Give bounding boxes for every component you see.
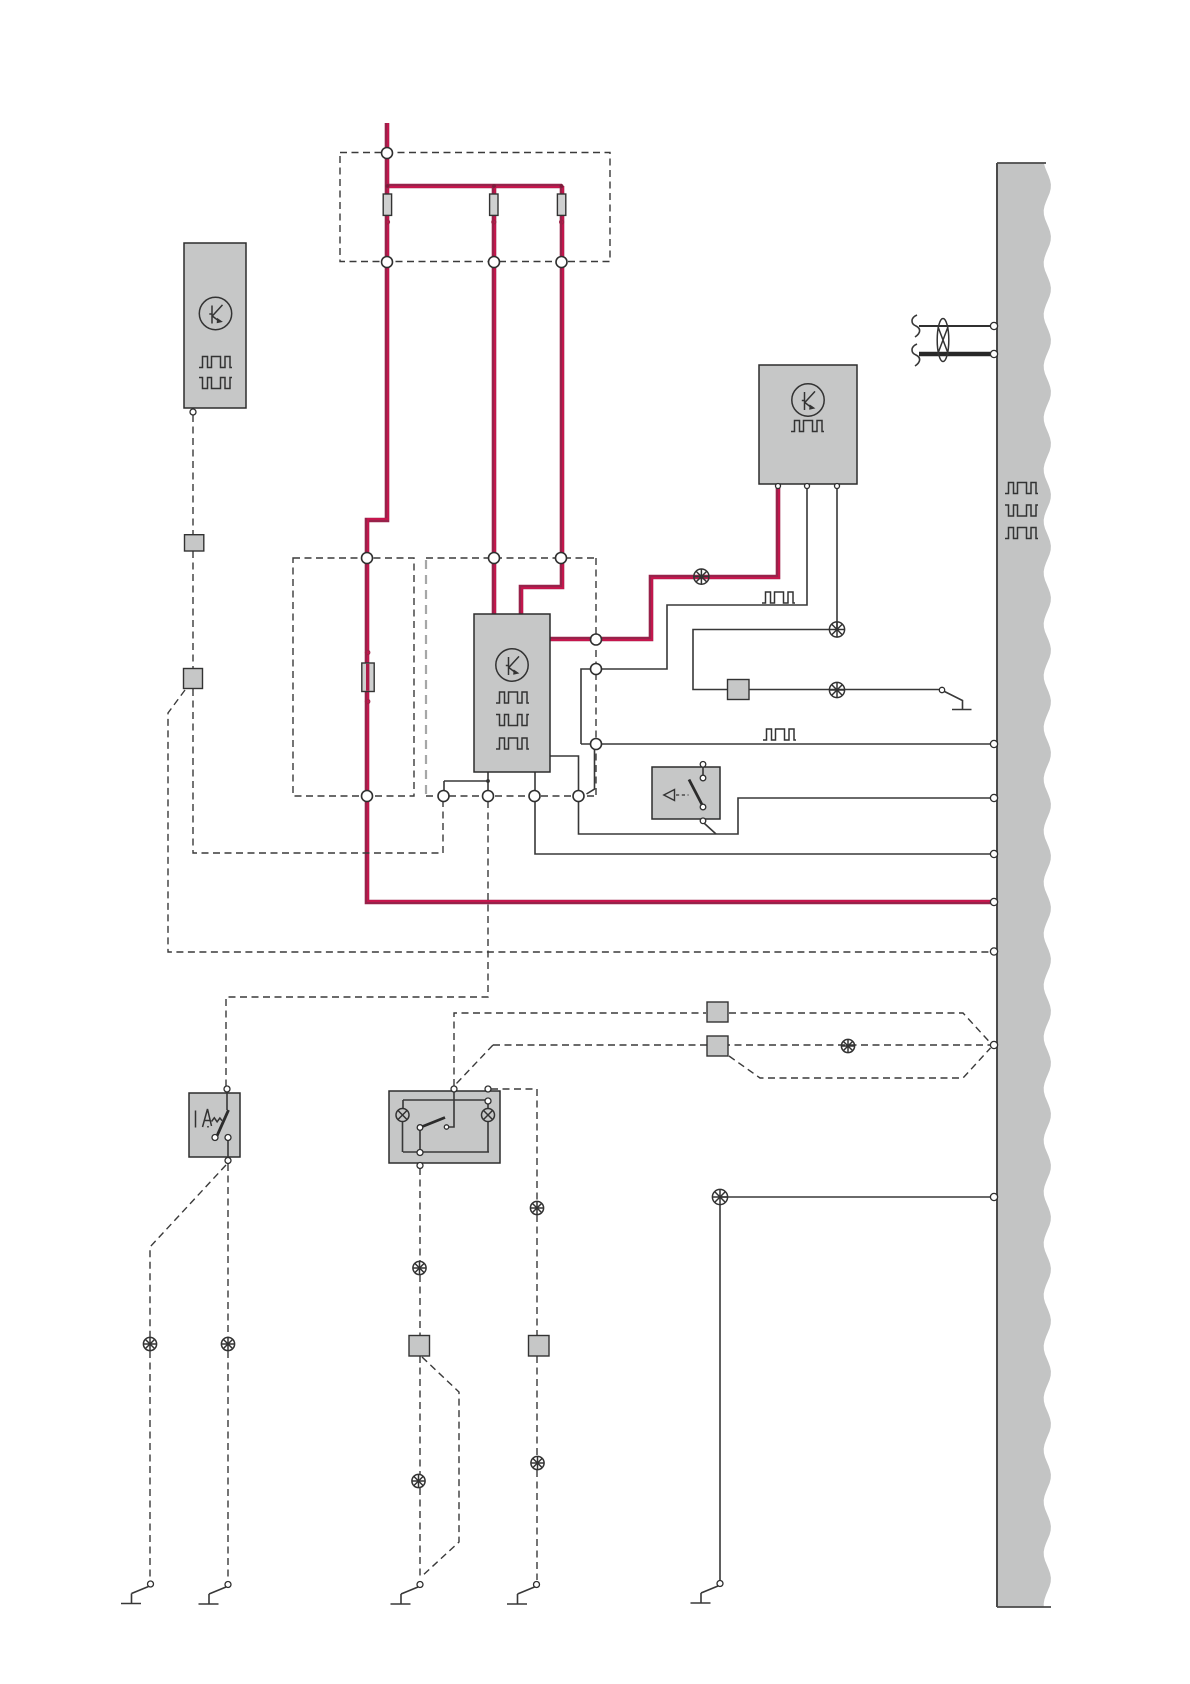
pin K1 top1 (451, 1086, 457, 1092)
bar node y1197 (990, 1193, 997, 1200)
twisted pair upper wire (919, 325, 991, 327)
splice relay chain upper (413, 1261, 426, 1274)
pin K1 top2 (485, 1086, 491, 1092)
dashed wire square1 to square2 (192, 551, 194, 668)
component box sensor U2 (759, 365, 857, 484)
pin U2-2 (805, 484, 810, 489)
twist symbol (937, 319, 949, 362)
pin switch right (939, 687, 944, 692)
pin S1 bottom (225, 1158, 231, 1164)
bar node y951 (990, 948, 997, 955)
bar node y744 (990, 740, 997, 747)
splice y1197 (712, 1189, 727, 1204)
pin U4 bottom outside (700, 818, 706, 824)
node fuse2 out (489, 257, 500, 268)
splice S1 diag chain (143, 1337, 156, 1350)
component box ECU U3 (474, 614, 550, 772)
ground G1 (121, 1581, 154, 1604)
component box direction switch U4 (652, 767, 720, 819)
dashed box connector C top edge (426, 557, 596, 559)
bar node red (990, 898, 997, 905)
node C-right 1 (591, 634, 602, 645)
component box relay K1 (389, 1091, 500, 1163)
component box left sensor U1 (184, 243, 246, 408)
splice relay chain lower (412, 1474, 425, 1487)
wire stub connector lower (587, 748, 595, 794)
dashed wire relay pin1 to square3 line (454, 1013, 706, 1086)
dashed box connector C bottom edge (426, 795, 596, 797)
node C-bottom 2 (483, 791, 494, 802)
bar node y798 (990, 794, 997, 801)
pin K1 bottom (417, 1163, 423, 1169)
switch blade U4 (689, 780, 703, 807)
node C-bottom 3 (529, 791, 540, 802)
dashed wire square3 to bar diagonal (729, 1013, 991, 1043)
bar pulse symbol 1 (1005, 483, 1038, 494)
dashed box connector C right edge (595, 558, 597, 796)
wire red fuse rail (387, 184, 562, 189)
fuse F1 (383, 194, 391, 215)
connector square Q4 (707, 1036, 728, 1056)
ground G5 (691, 1581, 724, 1604)
pin S1 contact right (225, 1135, 231, 1141)
wire switch bottom tap (705, 824, 717, 835)
node C-right 3 (591, 739, 602, 750)
S1 marking A (203, 1109, 212, 1127)
node C-right 2 (591, 664, 602, 675)
wire red fuse2 to ECU (492, 186, 497, 616)
dashed wire square2 diagonal to bar (168, 690, 990, 952)
pin K1 blade contact (444, 1125, 448, 1129)
pin U4 bottom inside (700, 804, 706, 810)
ground G4 (507, 1582, 540, 1605)
node fuse1 out (382, 257, 393, 268)
pin K1 rail (417, 1150, 423, 1156)
nub below fuse F3 (560, 220, 564, 224)
fuse F4 inline (362, 663, 374, 692)
squiggle end lower (912, 344, 920, 366)
node fuse3 out (556, 257, 567, 268)
dashed box fuse group (340, 153, 610, 262)
wire ground drop x720 (719, 1205, 721, 1581)
lamp left K1 (396, 1109, 409, 1122)
bar node twisted2 (990, 350, 997, 357)
nub below fuse F4 (365, 699, 369, 703)
pin U1 bottom (190, 409, 196, 415)
dashed wire y1045 to bar (493, 1044, 990, 1046)
connector square Q2 (184, 669, 203, 689)
wire red main feed (367, 123, 991, 902)
pin U2-1 (776, 484, 781, 489)
bar node y1045 (990, 1041, 997, 1048)
arrow symbol (664, 790, 675, 801)
blade K1 (420, 1118, 445, 1128)
pin U4 top inside (700, 775, 706, 781)
nub below fuse F2 (492, 220, 496, 224)
central electronic module bar (997, 163, 1051, 1607)
wire ECU right pin route (550, 756, 991, 834)
dashed wire lower detour (729, 1048, 991, 1078)
connector square Q5 (529, 1336, 550, 1357)
junction dot ECU bottom (486, 779, 490, 783)
dashed wire relay bottom chain (419, 1168, 421, 1580)
dashed wire relay bottom branch (421, 1357, 459, 1577)
splice on red wire (694, 569, 709, 584)
dashed box connector C left edge light (425, 560, 427, 794)
node C-bottom red (362, 791, 373, 802)
connector square Q6 (409, 1336, 430, 1357)
dashed box left fuse holder (293, 558, 414, 796)
twisted pair lower wire thick (919, 352, 991, 357)
wire ECU bottom pin2 (487, 772, 489, 793)
pin K1 pivot (417, 1125, 423, 1131)
lamp right K1 (482, 1109, 495, 1122)
switch to ground right (945, 692, 972, 710)
node C-bottom 4 (573, 791, 584, 802)
node fuse box top (382, 148, 393, 159)
S1 marking zigzag (212, 1118, 223, 1122)
splice dashed y1045 (841, 1039, 854, 1052)
pulse symbol near y744 wire (763, 729, 796, 740)
wire sensor pin3 down (836, 486, 838, 630)
pin U2-3 (835, 484, 840, 489)
dashed wire S1 down chain (227, 1164, 229, 1580)
splice right chain upper (530, 1201, 543, 1214)
blade S1 (217, 1110, 229, 1137)
node C-bottom 1 (438, 791, 449, 802)
connector square Q1 (185, 535, 204, 551)
dashed wire relay pin2 right chain (491, 1089, 537, 1580)
dashed wire y1045 diagonal to relay (456, 1045, 493, 1084)
pin K1 inner top2 (485, 1098, 491, 1104)
wire red ECU output to sensor (550, 486, 778, 639)
wire red fuse3 branch (521, 186, 562, 616)
dashed wire ECU connector to switch S1 (226, 801, 488, 1086)
junction nub fuse rail 3 (560, 184, 564, 188)
ground G2 (199, 1582, 232, 1605)
nub above fuse F4 (365, 650, 369, 654)
dashed wire S1 diagonal chain (150, 1165, 226, 1580)
wire line y1197 to bar (720, 1196, 991, 1198)
wire sensor pin2 to connector (591, 486, 807, 669)
bar node twisted1 (990, 322, 997, 329)
splice pin3 lower (829, 682, 844, 697)
splice right chain lower (531, 1456, 544, 1469)
wire line y854 to bar (535, 799, 991, 854)
dashed wire left box to square1 (192, 415, 194, 535)
junction nub fuse rail 2 (492, 184, 496, 188)
pulse symbol near pin2 wire (762, 592, 795, 603)
dashed wire square2 to ECU connector (193, 689, 443, 853)
fuse F3 (557, 194, 565, 215)
wire ECU bottom jumper (444, 781, 488, 793)
junction nub fuse rail 1 (386, 184, 390, 188)
splice pin3 upper (829, 622, 844, 637)
wire splice route to switch (693, 630, 939, 690)
ground G3 (391, 1582, 424, 1605)
splice S1 chain (221, 1337, 234, 1350)
fuse F2 (490, 194, 498, 215)
node C-top red3 (556, 553, 567, 564)
wire stub connector pair (581, 669, 591, 744)
squiggle end upper (912, 315, 920, 337)
pin S1 contact left (212, 1135, 218, 1141)
node C-top red2 (489, 553, 500, 564)
connector square Q3 (707, 1002, 728, 1022)
wire ECU bottom pin3 (534, 772, 536, 793)
node C-top red1 (362, 553, 373, 564)
S1 marking bar (195, 1111, 197, 1128)
pin S1 top (224, 1086, 230, 1092)
bar node y854 (990, 850, 997, 857)
component box switch S1 (189, 1093, 240, 1157)
pin U4 top outside (700, 762, 706, 768)
nub below fuse F1 (386, 220, 390, 224)
connector square Q7 (728, 680, 750, 700)
bar pulse symbol 3 (1005, 528, 1038, 539)
wire bus line y744 (581, 743, 991, 745)
bar pulse symbol 2 (1005, 505, 1038, 516)
